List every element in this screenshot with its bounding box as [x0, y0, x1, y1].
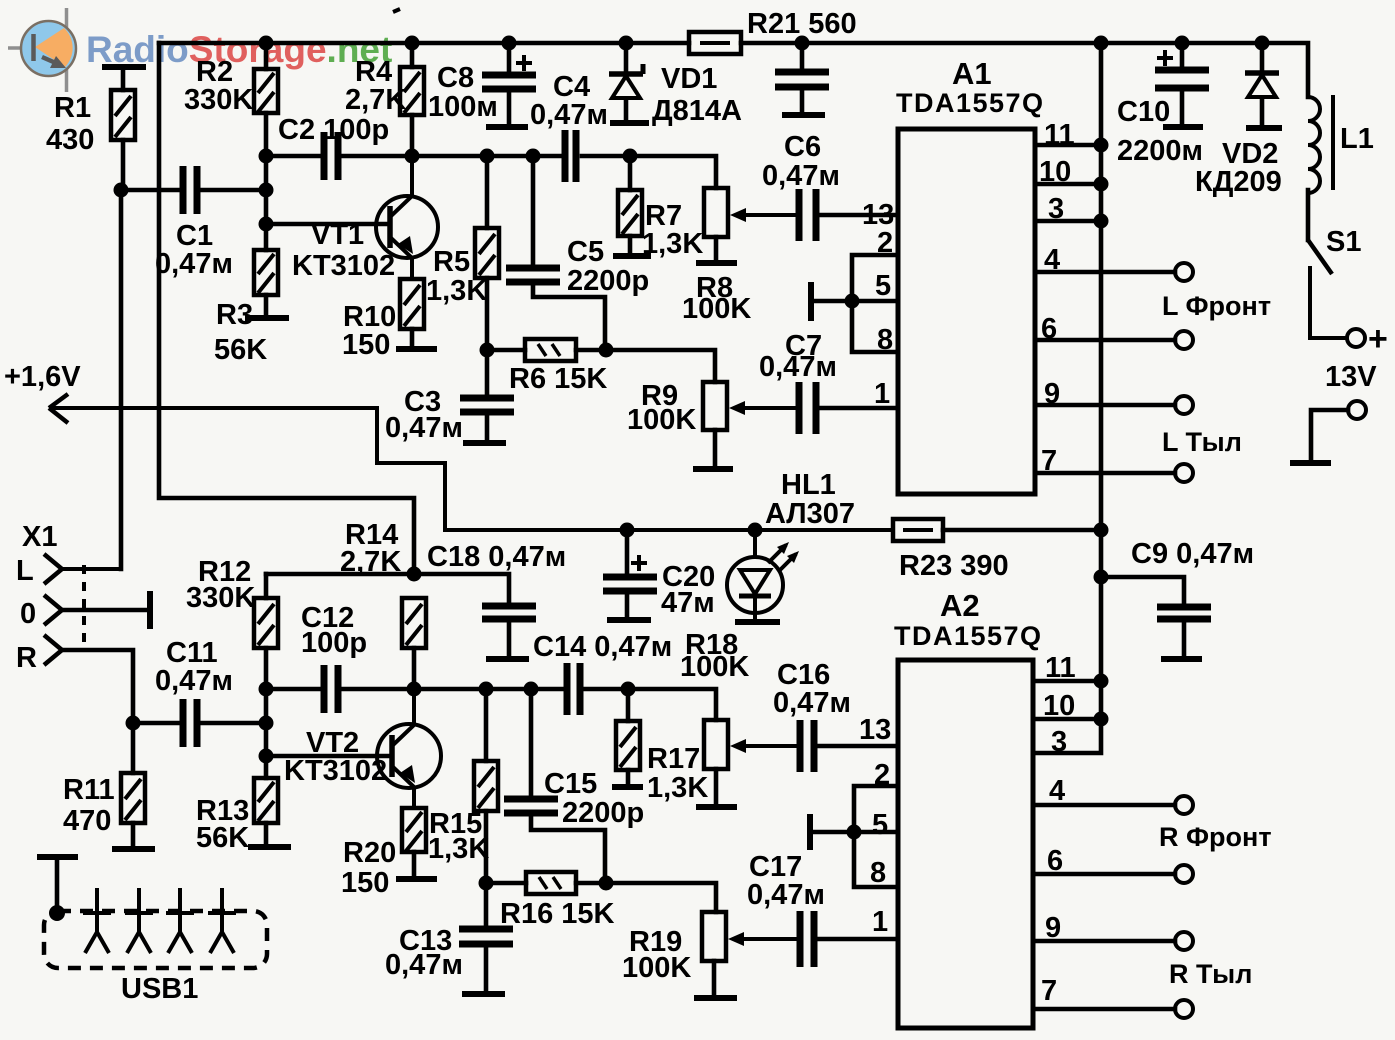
op-amp A1 TDA1557Q box	[898, 129, 1035, 494]
resistor R18 100K	[704, 720, 728, 769]
svg-text:L: L	[16, 555, 34, 587]
terminal L rear +	[1175, 396, 1193, 414]
junction pin10 A2	[1094, 712, 1109, 727]
wire	[713, 430, 718, 467]
svg-text:+1,6V: +1,6V	[4, 361, 81, 393]
junction R6/R9	[599, 343, 614, 358]
capacitor C15	[504, 799, 558, 813]
svg-text:KT3102: KT3102	[292, 250, 395, 282]
svg-text:0,47м: 0,47м	[773, 687, 851, 719]
wire pin 5 A2	[812, 830, 898, 835]
wire pin 11 A1	[1035, 143, 1101, 148]
wire pin 7 A2	[1033, 1007, 1175, 1012]
ground under R13	[248, 844, 291, 850]
junction R4/VT1 collector	[405, 149, 420, 164]
wire pin 4 A1 to L front	[1035, 270, 1175, 275]
wire	[625, 530, 630, 574]
junction R2 top	[259, 36, 274, 51]
svg-text:R23 390: R23 390	[899, 550, 1009, 582]
wire	[625, 591, 630, 618]
capacitor C8	[482, 55, 536, 89]
wire C15 elbow	[531, 813, 605, 883]
ground under R19	[694, 995, 737, 1001]
capacitor C1	[183, 166, 197, 214]
wire	[624, 43, 629, 72]
capacitor C18	[482, 606, 536, 619]
wire	[507, 619, 512, 657]
junction R14 top	[407, 567, 422, 582]
svg-text:56K: 56K	[196, 822, 249, 854]
svg-text:0,47м: 0,47м	[155, 665, 233, 697]
wire	[133, 721, 180, 726]
wire	[531, 156, 536, 266]
resistor R12 330K	[254, 598, 278, 648]
ground under VD2	[1246, 125, 1282, 131]
wire top rail left of R21	[159, 41, 689, 46]
resistor R20 150	[402, 808, 426, 852]
svg-text:VD1: VD1	[661, 63, 717, 95]
svg-text:A1: A1	[952, 56, 992, 91]
wire	[264, 43, 269, 69]
wire	[410, 43, 415, 67]
junction pin11 A1	[1094, 138, 1109, 153]
wire pin 1 A2	[814, 937, 898, 942]
wire	[628, 236, 633, 254]
ground under C8	[486, 124, 528, 130]
svg-text:L Тыл: L Тыл	[1162, 427, 1242, 457]
wire to R19	[576, 883, 716, 912]
wiper arrow into R19	[728, 932, 797, 946]
svg-text:13V: 13V	[1325, 361, 1377, 393]
junction USB shield	[49, 905, 65, 921]
connector USB1 dashed body	[44, 911, 267, 968]
wire	[626, 689, 631, 721]
wire pin 6 A1	[1035, 338, 1175, 343]
capacitor C16	[800, 720, 814, 772]
terminal bar at X1 common	[147, 591, 153, 629]
USB1 contact 4	[208, 888, 236, 953]
wire	[484, 944, 489, 992]
wire	[1306, 190, 1311, 240]
wire	[266, 154, 321, 159]
wire left rail staircase to VT2 stage	[159, 43, 414, 574]
svg-text:430: 430	[46, 124, 94, 156]
wire pin 5 A1	[813, 299, 898, 304]
terminal L front +	[1175, 263, 1193, 281]
junction R23/rail	[1094, 523, 1109, 538]
wire	[484, 811, 489, 883]
ground under R9	[693, 466, 733, 472]
svg-text:КД209: КД209	[1195, 166, 1282, 198]
junction pin5 bracket A1	[845, 294, 860, 309]
node +1,6V arrow	[49, 394, 893, 530]
svg-text:0,47м: 0,47м	[385, 412, 463, 444]
wire	[264, 113, 269, 156]
junction rail top	[1094, 36, 1109, 51]
resistor R10 150	[400, 279, 424, 329]
terminal L front -	[1175, 331, 1193, 349]
svg-text:330K: 330K	[186, 582, 255, 614]
ground under HL1	[735, 619, 780, 625]
svg-text:C15: C15	[544, 768, 597, 800]
junction C9 branch	[1094, 570, 1109, 585]
svg-text:R: R	[16, 642, 37, 674]
ground under R17	[612, 784, 643, 790]
svg-text:0,47м: 0,47м	[762, 160, 840, 192]
svg-text:R16 15K: R16 15K	[500, 898, 615, 930]
svg-text:470: 470	[63, 805, 111, 837]
junction C11 to base chain	[259, 716, 274, 731]
svg-text:5: 5	[875, 270, 891, 302]
connector X1 contact L	[44, 554, 62, 584]
svg-text:4: 4	[1049, 775, 1065, 807]
wire	[410, 329, 415, 346]
resistor R3 56K	[254, 250, 278, 295]
svg-text:R6 15K: R6 15K	[509, 363, 607, 395]
wiper arrow into R18	[730, 739, 797, 753]
svg-text:C10: C10	[1117, 96, 1170, 128]
svg-text:330K: 330K	[184, 84, 253, 116]
wire USB shield	[55, 857, 60, 913]
wire	[628, 156, 633, 190]
svg-text:S1: S1	[1326, 226, 1361, 258]
terminal +13V	[1347, 329, 1365, 347]
capacitor C20	[603, 555, 657, 591]
resistor R19 100K	[702, 912, 726, 961]
resistor R2 330K	[254, 69, 278, 113]
resistor R5 1,3K	[475, 228, 499, 278]
wire	[484, 689, 489, 761]
svg-text:RadioStorage.net: RadioStorage.net	[86, 29, 392, 70]
svg-text:C14 0,47м: C14 0,47м	[533, 631, 672, 663]
wire	[1180, 88, 1185, 125]
svg-text:2200p: 2200p	[562, 797, 644, 829]
ground under R7	[613, 253, 651, 259]
wire	[121, 67, 126, 90]
junction R16/R19	[599, 876, 614, 891]
capacitor C7	[799, 382, 816, 434]
wire	[507, 43, 512, 73]
stray mark	[393, 9, 400, 12]
svg-text:2200p: 2200p	[567, 265, 649, 297]
junction R7 top	[623, 149, 638, 164]
wire pin 9 A2	[1033, 939, 1175, 944]
svg-text:100K: 100K	[627, 404, 696, 436]
svg-text:C18 0,47м: C18 0,47м	[427, 541, 566, 573]
junction pin10 A1	[1094, 177, 1109, 192]
wire L input riser	[119, 190, 124, 569]
svg-text:2,7K: 2,7K	[345, 84, 406, 116]
junction R11/C11	[126, 716, 141, 731]
USB1 contact 2	[125, 888, 153, 953]
capacitor C11	[183, 699, 197, 747]
wire	[714, 237, 719, 261]
wire R12-R14 top link	[266, 572, 414, 577]
svg-text:2200м: 2200м	[1117, 135, 1203, 167]
ground under R11	[112, 846, 155, 852]
resistor R14 2,7K	[402, 598, 426, 648]
svg-text:150: 150	[342, 329, 390, 361]
ground above R1	[102, 64, 146, 70]
resistor R7 1,3K	[618, 190, 642, 236]
ground under R10	[396, 346, 437, 352]
svg-text:100м: 100м	[428, 91, 498, 123]
junction pin3 A1	[1094, 214, 1109, 229]
transistor VT1 KT3102	[376, 156, 438, 279]
wire	[264, 823, 269, 845]
junction R5/C3/R6	[480, 343, 495, 358]
junction pin5 bracket A2	[847, 825, 862, 840]
resistor R1 430	[111, 90, 135, 140]
junction R15/C13/R16	[479, 876, 494, 891]
wire pin 7 A1	[1035, 471, 1175, 476]
ground under R3	[245, 315, 289, 321]
svg-text:X1: X1	[22, 521, 57, 553]
ground under R20	[396, 876, 437, 882]
svg-text:R17: R17	[647, 743, 700, 775]
junction R17 top	[621, 682, 636, 697]
wire L contact riser	[62, 190, 121, 569]
svg-text:1,3K: 1,3K	[647, 772, 708, 804]
connector X1 body dashed	[82, 565, 86, 652]
junction C8 top	[502, 36, 517, 51]
wiper arrow into R9	[729, 401, 797, 415]
connector X1 contact R	[44, 635, 62, 665]
wire pin 6 A2	[1033, 872, 1175, 877]
svg-text:KT3102: KT3102	[284, 755, 387, 787]
svg-text:47м: 47м	[661, 587, 715, 619]
wire	[624, 100, 629, 121]
wire	[529, 689, 534, 796]
wire pin 13	[816, 213, 898, 218]
wire bottom mid rail	[341, 687, 564, 692]
svg-text:1: 1	[874, 378, 890, 410]
wire to R9	[576, 350, 715, 382]
junction R2/C2	[259, 149, 274, 164]
ground under filter cap	[782, 112, 825, 118]
svg-text:R21 560: R21 560	[747, 8, 857, 40]
capacitor C14	[567, 663, 580, 715]
svg-text:7: 7	[1041, 975, 1057, 1007]
wire mid rail	[341, 154, 563, 159]
svg-text:8: 8	[870, 857, 886, 889]
svg-text:TDA1557Q: TDA1557Q	[896, 88, 1045, 118]
wire	[1182, 619, 1187, 657]
ground under VD1	[610, 120, 649, 126]
svg-text:R5: R5	[433, 246, 470, 278]
resistor R15 1,3K	[474, 761, 498, 811]
resistor R17 1,3K	[616, 721, 640, 770]
terminal R rear +	[1175, 932, 1193, 950]
ground under C3	[463, 440, 506, 446]
wire pin 3 A1	[1035, 219, 1101, 224]
wire top rail right of R21	[741, 43, 1308, 97]
wire	[266, 687, 321, 692]
svg-text:HL1: HL1	[781, 469, 836, 501]
svg-text:C2 100p: C2 100p	[278, 114, 389, 146]
wire mid rail to R8	[582, 156, 716, 188]
capacitor C17	[800, 911, 814, 967]
wire	[800, 87, 805, 113]
ground above USB1	[37, 854, 78, 860]
terminal L rear -	[1175, 464, 1193, 482]
wire	[264, 224, 269, 250]
op-amp A2 TDA1557Q box	[898, 660, 1033, 1028]
transistor VT2 KT3102	[377, 689, 441, 808]
capacitor C5	[506, 268, 560, 282]
svg-text:13: 13	[859, 714, 891, 746]
ground under C18	[486, 656, 529, 662]
wire	[487, 348, 525, 353]
svg-text:R Фронт: R Фронт	[1159, 822, 1272, 852]
svg-text:R Тыл: R Тыл	[1169, 959, 1252, 989]
wire	[485, 278, 490, 350]
svg-text:R11: R11	[63, 774, 115, 806]
svg-text:Д814А: Д814А	[652, 95, 742, 127]
wiper arrow into R8	[730, 208, 797, 222]
wire pin 11 A2	[1033, 679, 1101, 684]
svg-text:1,3K: 1,3K	[428, 833, 489, 865]
junction VD2 top	[1255, 36, 1270, 51]
wire	[485, 350, 490, 396]
junction C15 top	[524, 682, 539, 697]
svg-text:100K: 100K	[680, 651, 749, 683]
wire	[484, 883, 489, 926]
wire VT1 base	[266, 222, 389, 227]
svg-text:0: 0	[20, 598, 36, 630]
ground under C10	[1163, 124, 1203, 130]
capacitor C12	[324, 665, 338, 713]
switch S1	[1308, 240, 1348, 338]
wire	[410, 115, 415, 156]
terminal -13V	[1348, 401, 1366, 419]
resistor R9 100K	[703, 382, 727, 430]
ground under R8	[696, 260, 737, 266]
wire	[1180, 43, 1185, 68]
wire	[485, 412, 490, 441]
USB1 contact 1	[83, 888, 111, 953]
capacitor C6	[799, 189, 816, 241]
junction R14/VT2 collector	[407, 682, 422, 697]
wire main vertical rail to A2 pin3	[1035, 43, 1101, 753]
svg-text:0,47м: 0,47м	[530, 99, 608, 131]
svg-text:2,7K: 2,7K	[340, 546, 401, 578]
wire pin 1 A1	[816, 406, 898, 411]
wire pin 4 A2 to R front	[1033, 803, 1175, 808]
svg-text:100K: 100K	[622, 952, 691, 984]
wire	[264, 648, 269, 689]
svg-text:A2: A2	[940, 588, 980, 623]
wire	[507, 89, 512, 125]
svg-text:56K: 56K	[214, 334, 267, 366]
wire R contact	[62, 650, 133, 723]
wire	[264, 574, 269, 598]
junction VT2 base node	[259, 749, 274, 764]
wire 0 contact	[62, 608, 148, 613]
wire pin 10 A1	[1035, 182, 1101, 187]
resistor R6 15K	[525, 339, 576, 361]
wire pin 9 A1	[1035, 403, 1175, 408]
junction filter cap top	[795, 36, 810, 51]
terminal bar at pin 5 A2	[807, 814, 813, 850]
resistor R16 15K	[526, 872, 576, 894]
wire	[1260, 43, 1265, 71]
junction R12/C12	[259, 682, 274, 697]
junction VD1 top	[619, 36, 634, 51]
wire to C18	[414, 574, 509, 604]
resistor R23 390	[893, 519, 943, 541]
junction R5 top	[480, 149, 495, 164]
svg-text:0,47м: 0,47м	[155, 248, 233, 280]
svg-text:R1: R1	[54, 92, 91, 124]
wire pins 2-8 bracket A2	[854, 786, 898, 887]
wire	[264, 756, 269, 778]
wire base node link	[264, 689, 269, 756]
resistor R4 2,7K	[400, 67, 424, 115]
svg-text:1,3K: 1,3K	[642, 228, 703, 260]
resistor R13 56K	[254, 778, 278, 823]
svg-text:100K: 100K	[682, 293, 751, 325]
svg-text:1,3K: 1,3K	[426, 275, 487, 307]
wire	[412, 852, 417, 876]
logo transistor icon	[8, 8, 76, 92]
resistor R8 100K	[704, 188, 728, 237]
wire pin 13 A2	[814, 744, 898, 749]
wire	[486, 881, 526, 886]
ground under C20	[607, 617, 651, 623]
junction C5 top	[526, 149, 541, 164]
wire	[1260, 99, 1265, 126]
resistor R11 470	[121, 773, 145, 823]
terminal R front +	[1175, 796, 1193, 814]
wire	[485, 156, 490, 228]
capacitor (supply filter)	[775, 72, 829, 87]
wire	[714, 769, 719, 805]
terminal R front -	[1175, 865, 1193, 883]
svg-text:150: 150	[341, 867, 389, 899]
USB1 contact 3	[166, 888, 194, 953]
svg-text:3: 3	[1051, 726, 1067, 758]
wire pins 2-8 bracket A1	[852, 255, 898, 352]
wire	[712, 961, 717, 996]
capacitor C10	[1155, 50, 1209, 88]
wire	[800, 43, 805, 70]
capacitor C13	[459, 929, 513, 944]
wire	[200, 721, 266, 726]
wire	[412, 648, 417, 689]
wire	[264, 295, 269, 316]
svg-text:C8: C8	[437, 62, 474, 94]
capacitor C9	[1157, 607, 1211, 619]
wire	[131, 723, 136, 773]
ground under R18	[696, 804, 737, 810]
svg-text:АЛ307: АЛ307	[765, 498, 855, 530]
wire C9 branch	[1101, 577, 1184, 604]
wire	[200, 188, 266, 193]
svg-text:0,47м: 0,47м	[385, 949, 463, 981]
svg-text:0,47м: 0,47м	[759, 351, 837, 383]
junction C1 to base chain	[259, 183, 274, 198]
capacitor C2	[324, 132, 338, 180]
junction base node	[259, 217, 274, 232]
connector X1 contact 0	[44, 595, 62, 625]
diode VD1 Д814А	[609, 64, 643, 98]
svg-text:C9 0,47м: C9 0,47м	[1131, 538, 1254, 570]
wire	[626, 770, 631, 785]
wire VT2 base	[266, 754, 389, 759]
wire R23 to rail	[943, 528, 1101, 533]
terminal bar at pin 5 A1	[808, 282, 814, 321]
